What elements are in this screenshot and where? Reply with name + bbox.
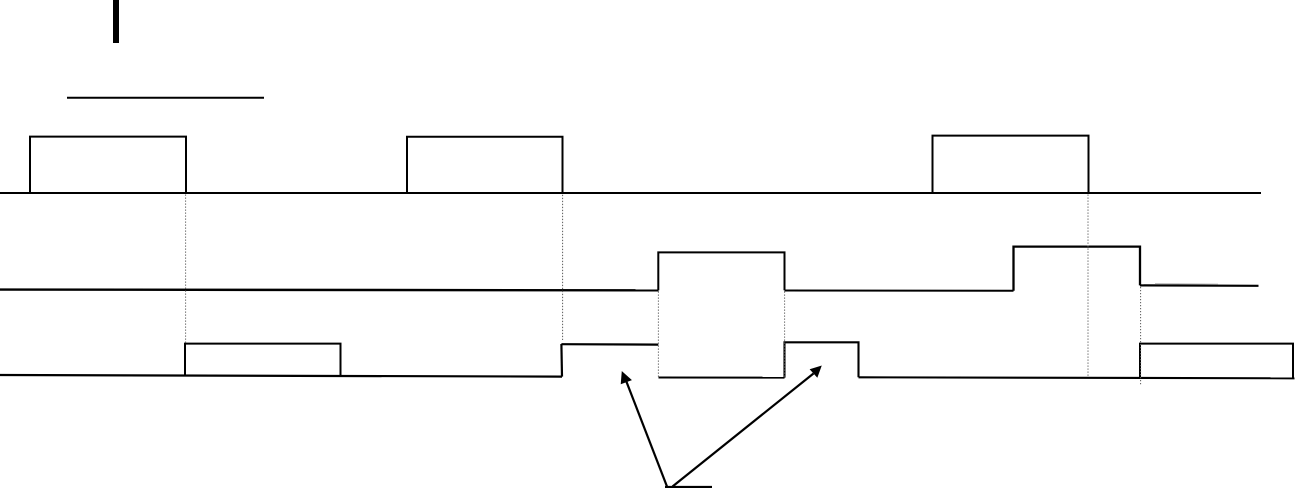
annotation arrow 2 shaft: [673, 374, 814, 487]
trace 2 pulse B with offset tail: [1014, 247, 1141, 291]
trace 3 pulse A rectangle: [185, 344, 341, 377]
dotted alignment line at edge x=562: [562, 195, 564, 340]
text cursor bar (top left): [113, 0, 119, 43]
trace 3 pulse C rectangle: [1140, 344, 1293, 379]
trace 3 low segment mid: [659, 377, 785, 379]
trace 2 tail segment: [1140, 284, 1259, 287]
trace 3 baseline right segment: [859, 377, 1295, 378]
trace 2 tail gray upper edge: [1155, 283, 1218, 285]
trace 3 pulse B: [785, 342, 859, 377]
trace 1 pulse C: [933, 136, 1089, 193]
trace 2 baseline mid segment: [785, 290, 1014, 292]
trace 3 baseline left segment: [0, 375, 562, 377]
annotation arrow 1 shaft: [626, 381, 667, 486]
trace 2 pulse A: [658, 252, 784, 290]
trace 3 rising edge 1: [560, 344, 563, 377]
annotation arrow 1 head: [621, 372, 630, 383]
dotted alignment line at edge x=658: [657, 292, 659, 378]
trace 3 high segment 1: [561, 343, 658, 346]
label box top edge (cut off at bottom): [665, 486, 712, 488]
dotted alignment line at edge x=186: [185, 195, 187, 344]
dotted alignment line at edge x=784: [784, 292, 786, 378]
trace 1 baseline: [0, 192, 1261, 194]
dotted alignment line at edge x=1140: [1140, 287, 1142, 386]
trace 1 pulse A: [30, 137, 186, 193]
heading underline: [67, 97, 264, 99]
trace 1 pulse B: [407, 137, 563, 194]
annotation arrow 2 head: [811, 366, 821, 376]
dotted alignment line at edge x=1088: [1087, 195, 1089, 376]
trace 2 baseline left segment: [0, 288, 659, 291]
